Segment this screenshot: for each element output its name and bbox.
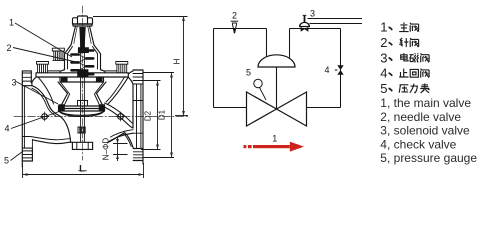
right upper ogee from plate to flange — [103, 107, 133, 129]
svg-text:3: 3 — [11, 78, 16, 88]
svg-text:3, solenoid valve: 3, solenoid valve — [380, 124, 470, 138]
legend row 1 Chinese: 1、主阀 — [380, 20, 418, 35]
left partition to seat — [59, 116, 71, 143]
left bolt-hole circle — [42, 114, 48, 120]
svg-text:5, pressure gauge: 5, pressure gauge — [380, 151, 477, 165]
svg-text:1: 1 — [9, 17, 14, 27]
svg-text:D1: D1 — [158, 109, 167, 120]
svg-text:2, needle valve: 2, needle valve — [380, 110, 461, 124]
svg-text:5: 5 — [246, 68, 251, 78]
leader label 1 — [11, 23, 77, 161]
svg-text:5: 5 — [380, 81, 387, 96]
svg-text:3: 3 — [380, 50, 387, 65]
bottom-right pipe — [307, 107, 341, 109]
dimension H — [93, 17, 188, 116]
right flange bolt — [116, 62, 128, 73]
dimension N-PhiD — [113, 138, 128, 162]
band-to-plate curve right — [108, 77, 129, 105]
step under left hub — [22, 83, 32, 86]
valve stem — [81, 36, 85, 142]
leader label 5 — [11, 151, 24, 161]
bonnet bell roof — [65, 45, 101, 54]
left vertical pipe — [213, 29, 215, 108]
leader label 4 — [11, 111, 62, 129]
legend row 3 Chinese: 3、电磁阀 — [380, 50, 429, 65]
pipe centerline — [14, 116, 188, 118]
solenoid valve 3 — [300, 15, 310, 31]
svg-text:3: 3 — [310, 8, 315, 18]
stem lower nut — [78, 70, 88, 77]
cap nut — [78, 16, 88, 24]
bottom shell left — [32, 140, 72, 144]
svg-text:1: 1 — [380, 20, 387, 35]
solenoid wires — [308, 19, 363, 24]
svg-text:4: 4 — [380, 66, 387, 81]
stem bottom hatched block — [78, 127, 85, 133]
right flange top hub — [133, 74, 143, 85]
svg-text:D2: D2 — [143, 110, 152, 121]
svg-text:N–ΦD: N–ΦD — [102, 138, 111, 161]
center mark above L line — [79, 170, 87, 172]
legend row 5 Chinese: 5、压力表 — [380, 81, 429, 96]
left pipe hub — [22, 71, 31, 83]
spring coils left column — [72, 55, 79, 71]
left end flange — [21, 83, 23, 168]
svg-text:L: L — [79, 164, 85, 175]
dimension D2 — [141, 81, 161, 150]
right end flange — [133, 70, 143, 164]
right passage lower wall — [107, 133, 133, 143]
pilot fitting on bonnet (left) — [52, 48, 64, 60]
svg-text:5: 5 — [4, 156, 9, 166]
top-right pipe — [290, 28, 341, 30]
right shell crest — [107, 133, 133, 149]
left body ogee (upper) — [32, 86, 59, 116]
chamber step under band — [60, 77, 104, 82]
bonnet bell walls — [65, 54, 101, 70]
right bolt-hole circle — [118, 114, 124, 120]
svg-text:1: 1 — [272, 133, 277, 143]
top-left pipe — [214, 28, 267, 30]
washer under nut — [73, 24, 92, 26]
spring coils right column — [86, 51, 93, 75]
left flange foot — [22, 148, 32, 161]
dimension D1 — [143, 73, 174, 158]
band-to-body curve left — [38, 77, 54, 104]
vertical stem centerline — [82, 6, 84, 160]
legend English rows — [380, 96, 477, 165]
pressure gauge 5 — [254, 79, 262, 87]
check valve 4 — [335, 65, 344, 74]
svg-text:H: H — [173, 58, 182, 64]
seat box — [72, 142, 92, 149]
dimension L — [23, 163, 144, 178]
adjusting screw funnel — [71, 26, 94, 45]
svg-text:1, the main valve: 1, the main valve — [380, 96, 471, 110]
diaphragm clamp nut — [78, 101, 88, 107]
dome right riser — [289, 29, 291, 63]
actuator stem — [276, 67, 278, 109]
right bore lines — [133, 101, 143, 134]
diaphragm chamber hourglass walls — [58, 82, 68, 106]
diaphragm plate — [59, 106, 105, 111]
svg-text:2: 2 — [380, 35, 387, 50]
needle valve 2 — [231, 21, 239, 33]
bottom-left pipe — [214, 107, 247, 109]
left flange bolt — [37, 62, 49, 73]
band-to-flange connections — [32, 71, 133, 84]
svg-text:4, check valve: 4, check valve — [380, 137, 456, 151]
leader label 3 — [16, 82, 58, 105]
main flange band — [36, 73, 128, 77]
spring wire slants — [79, 51, 87, 75]
dome left riser — [266, 29, 268, 62]
svg-text:4: 4 — [324, 65, 329, 75]
right vertical pipe — [340, 29, 342, 108]
svg-text:2: 2 — [6, 43, 11, 53]
main valve bowtie — [247, 92, 307, 126]
svg-text:4: 4 — [4, 123, 9, 133]
legend row 4 Chinese: 4、止回阀 — [380, 66, 429, 81]
spring upper seat collar — [79, 48, 89, 53]
actuator dome — [258, 55, 295, 67]
flow arrow (red) — [244, 142, 305, 152]
legend row 2 Chinese: 2、针阀 — [380, 35, 418, 50]
leader label 2 — [13, 48, 76, 63]
diaphragm arcs — [59, 111, 105, 115]
right flange foot — [133, 149, 143, 161]
svg-text:2: 2 — [232, 11, 237, 21]
